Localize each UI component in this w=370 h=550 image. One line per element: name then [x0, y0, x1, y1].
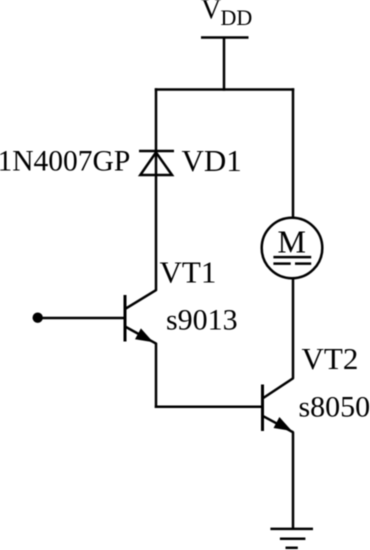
svg-text:VD1: VD1 — [182, 143, 242, 178]
svg-text:VT1: VT1 — [160, 255, 217, 290]
svg-text:s8050: s8050 — [299, 391, 370, 424]
svg-text:1N4007GP: 1N4007GP — [0, 146, 130, 178]
svg-text:s9013: s9013 — [166, 304, 238, 337]
svg-text:M: M — [278, 224, 306, 260]
svg-text:VT2: VT2 — [302, 341, 359, 376]
svg-text:DD: DD — [221, 5, 253, 30]
svg-text:V: V — [201, 0, 221, 26]
